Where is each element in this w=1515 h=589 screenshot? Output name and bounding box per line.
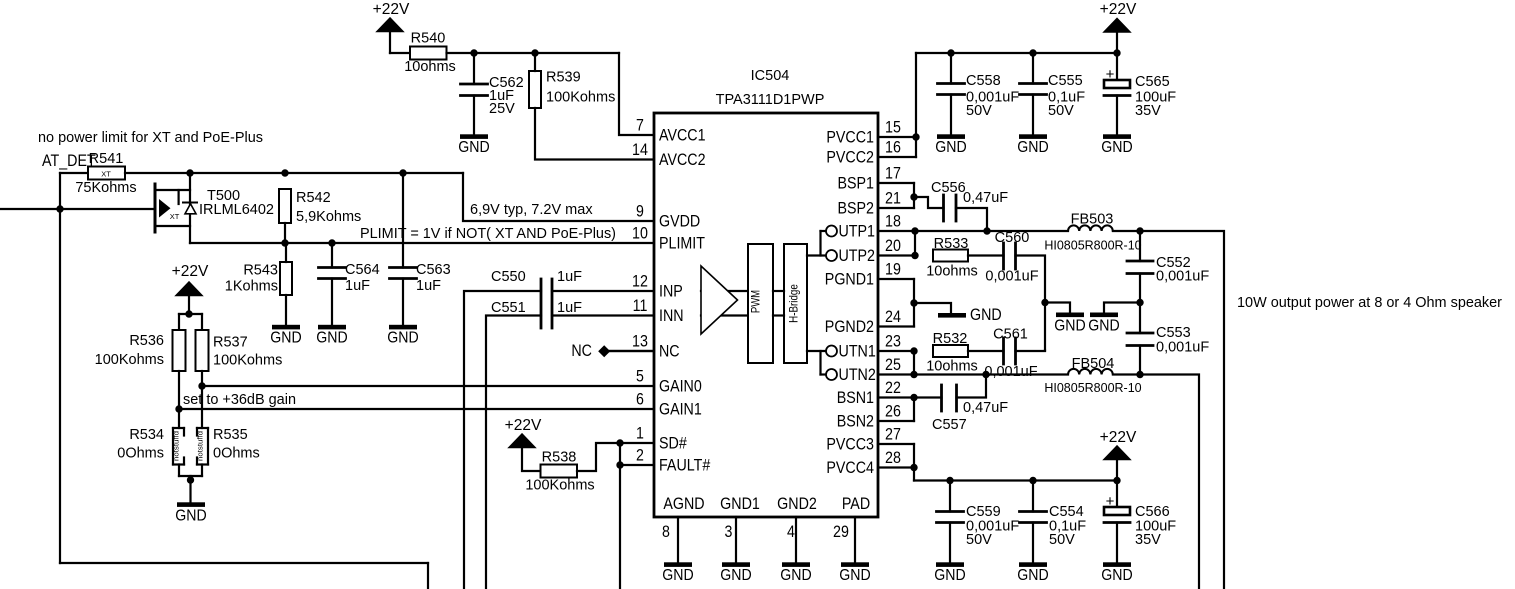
junction dot AC GND node [1041,299,1048,306]
resistor R533 [926,236,978,280]
junction dot C563 top [399,169,406,176]
pin 22 BSN1 [837,379,901,407]
ground GND under C559 [934,562,965,584]
junction dot C557 tap [982,371,989,378]
junction dot SD# [616,439,623,446]
power +22V above R538 [505,417,542,448]
svg-text:1uF: 1uF [557,300,582,316]
svg-text:23: 23 [885,333,901,351]
pin 14 AVCC2 [632,141,705,169]
svg-text:10W output power at 8 or 4 Ohm: 10W output power at 8 or 4 Ohm speaker [1237,294,1502,311]
wire R536 to GAIN1 [178,371,180,428]
resistor R538 [525,450,594,494]
transistor T500 arrow [159,199,171,218]
svg-text:3: 3 [725,523,733,541]
svg-text:1uF: 1uF [416,278,441,294]
svg-text:GND: GND [316,330,347,347]
svg-text:+22V: +22V [373,1,410,18]
wire R532 to C561 [968,350,1004,352]
capacitor C554 [1020,481,1087,563]
svg-text:GND: GND [1088,318,1119,335]
wire FB504 to speaker [1113,375,1199,589]
capacitor C561 [984,327,1037,381]
svg-text:8: 8 [662,523,670,541]
svg-text:C558: C558 [966,73,1001,89]
svg-text:GAIN1: GAIN1 [659,401,702,419]
note GVDD voltage [470,201,593,218]
wire INP from bottom [464,291,541,589]
capacitor C559 [937,481,1020,563]
svg-text:+22V: +22V [1100,1,1137,18]
pin 2 FAULT# [636,447,711,475]
svg-text:75Kohms: 75Kohms [75,180,136,196]
note no power limit [38,129,263,146]
svg-text:15: 15 [885,119,901,137]
IC H-Bridge block [784,244,807,363]
pin 28 PVCC4 [826,449,901,477]
svg-text:C563: C563 [416,262,451,278]
junction dot AT_DET [56,205,63,212]
svg-text:25: 25 [885,356,901,374]
IC internal wires H-Bridge to OUTP [807,226,837,262]
resistor R532 [926,331,978,375]
wire INN from bottom [486,316,541,589]
svg-text:50V: 50V [966,103,992,119]
wire AT_DET riser [59,173,61,209]
wire SD FAULT vertical bus [619,443,621,589]
ground GND pin 3 [720,562,751,584]
junction dot C553 bottom [1136,371,1143,378]
junction dot R539 tap [531,49,538,56]
svg-text:R539: R539 [546,70,581,86]
note output power [1237,294,1502,311]
label T500 [207,188,240,204]
pin 20 OUTP2 [885,237,901,255]
pin 3 GND1 [720,495,760,563]
svg-text:PLIMIT = 1V if NOT( XT AND PoE: PLIMIT = 1V if NOT( XT AND PoE-Plus) [360,225,616,242]
junction dot BSP [910,193,917,200]
pin 11 INN [633,297,684,325]
wire INP to pin 12 [552,290,654,292]
junction dot BSN [910,394,917,401]
wire bottom bus horizontal [60,562,428,564]
pin 7 AVCC1 [636,117,705,145]
svg-text:FB504: FB504 [1072,356,1115,372]
wire PVCC bottom rail [914,479,1117,481]
svg-text:4: 4 [787,523,795,541]
svg-text:FB503: FB503 [1071,212,1114,228]
junction dot OUTN pin25 [910,371,917,378]
transistor T500 body diode [183,203,197,214]
svg-text:PWM: PWM [749,290,763,313]
junction dot GAIN0 [198,382,205,389]
svg-text:35V: 35V [1135,103,1161,119]
svg-text:set to +36dB gain: set to +36dB gain [183,391,296,408]
wire PGND stubs [878,279,914,327]
wire +22V to R540 [390,52,410,54]
wire ladder top [179,314,202,330]
junction dot C559 [946,477,953,484]
svg-text:PVCC2: PVCC2 [826,149,874,167]
wire R540 to AVCC node [447,52,620,54]
svg-text:14: 14 [632,141,648,159]
svg-text:27: 27 [885,426,901,444]
junction dot C558 [947,49,954,56]
wire R541 left [60,172,88,174]
op-amp U IC504 box [654,113,878,517]
svg-text:PGND2: PGND2 [825,318,874,336]
pin 24 PGND2 [825,308,901,336]
power +22V right bottom [1100,429,1137,460]
svg-text:BSN1: BSN1 [837,389,874,407]
svg-text:6: 6 [636,391,644,409]
wire OUTN pins join [878,351,914,375]
junction dot pin28 [910,464,917,471]
svg-text:12: 12 [632,273,648,291]
svg-text:6,9V typ, 7.2V max: 6,9V typ, 7.2V max [470,201,593,218]
transistor T500 body [156,190,190,226]
junction dot pin15 [912,133,919,140]
capacitor C555 [1020,53,1086,134]
svg-text:100Kohms: 100Kohms [546,90,615,106]
ground GND under C563 [387,325,418,347]
svg-text:18: 18 [885,213,901,231]
wire R537 to GAIN0 [201,371,203,428]
resistor R541 [75,151,136,196]
pin 17 BSP1 [838,165,901,193]
junction dot C552 C553 GND tap [1136,299,1143,306]
svg-text:20: 20 [885,237,901,255]
ground GND ladder [175,476,206,525]
pin 1 SD# [636,425,687,453]
capacitor C566 electrolytic [1104,481,1176,563]
wire AT_DET input [0,208,155,210]
wire OUTP pins join [878,231,915,256]
svg-text:IC504: IC504 [751,68,790,84]
wire GVDD to pin 9 [463,173,654,221]
svg-text:C560: C560 [995,230,1030,246]
svg-text:11: 11 [633,297,648,315]
svg-text:1uF: 1uF [345,278,370,294]
svg-text:C557: C557 [932,417,967,433]
svg-text:no power limit for XT and PoE-: no power limit for XT and PoE-Plus [38,129,263,146]
wire R533 to C560 [968,254,1004,256]
wire OUTP1 line [878,230,1068,232]
pin 6 GAIN1 [636,391,702,419]
svg-text:26: 26 [885,403,901,421]
ground GND pin 4 [780,562,811,584]
svg-text:GND: GND [270,330,301,347]
capacitor C562 [461,53,524,134]
wire R539 to pin 14 [535,108,654,160]
svg-text:GND: GND [175,508,206,525]
svg-text:0,47uF: 0,47uF [963,400,1008,416]
resistor R537 [196,330,283,371]
svg-text:PAD: PAD [842,495,870,513]
svg-text:notstuffd: notstuffd [198,431,205,461]
resistor R539 [529,53,615,108]
junction dot R542 top [281,169,288,176]
transistor T500 gate bar [154,184,157,232]
ground GND under C564 [316,325,347,347]
capacitor C560 [985,230,1038,285]
pin 13 NC [632,333,680,361]
svg-text:22: 22 [885,379,901,397]
svg-text:R537: R537 [213,335,248,351]
wire AT_DET vertical bus [59,209,61,563]
svg-text:R538: R538 [542,450,577,466]
wire GAIN0 [202,385,654,387]
wire C561 to GND node [1016,349,1046,352]
svg-text:AVCC1: AVCC1 [659,127,706,145]
label OUTN2 [839,366,876,384]
svg-text:IRLML6402: IRLML6402 [199,202,274,218]
ground GND pin 29 [839,562,870,584]
svg-text:PVCC1: PVCC1 [826,129,874,147]
wire AVCC down to pin 7 [619,53,654,135]
svg-text:24: 24 [885,308,901,326]
svg-text:50V: 50V [966,532,992,548]
junction dot FAULT# [616,461,623,468]
svg-text:R533: R533 [934,236,969,252]
capacitor C565 electrolytic [1104,53,1176,134]
svg-text:HI0805R800R-10: HI0805R800R-10 [1044,239,1141,253]
ferrite bead FB503 [1044,212,1141,253]
resistor R543 [225,243,292,295]
svg-text:9: 9 [636,203,644,221]
svg-text:C551: C551 [491,300,526,316]
svg-text:R536: R536 [129,333,164,349]
ferrite bead FB504 [1044,356,1141,395]
svg-text:NC: NC [571,342,592,360]
pin 19 PGND1 [825,261,901,289]
svg-text:GAIN0: GAIN0 [659,378,702,396]
wire GAIN1 [179,408,654,410]
ground GND under C555 [1017,134,1048,156]
net label AT_DET [42,152,96,170]
junction dot C555 [1029,49,1036,56]
svg-text:R540: R540 [411,31,446,47]
wire C556 to OUTP1 [956,208,987,231]
svg-text:GND2: GND2 [777,495,817,513]
svg-text:21: 21 [885,190,901,208]
junction dot C554 [1029,477,1036,484]
svg-text:C550: C550 [491,269,526,285]
capacitor C553 [1127,303,1209,375]
ground GND under R543 [270,295,301,347]
svg-text:29: 29 [833,523,849,541]
ground GND under C558 [935,134,966,156]
svg-text:0Ohms: 0Ohms [213,446,260,462]
wire FB503 to speaker [1113,231,1224,589]
junction dot GAIN1 [175,405,182,412]
wire PVCC34 stubs [878,444,914,481]
junction dot OUTP pin20 [911,252,918,259]
svg-text:PVCC3: PVCC3 [826,436,874,454]
junction dot C552 top [1136,227,1143,234]
wire bottom bus drop [427,563,429,589]
svg-text:GND: GND [935,139,966,156]
wire PVCC top rail [916,52,1117,54]
capacitor C556 [931,180,1008,221]
svg-text:R541: R541 [89,151,124,167]
junction dot ladder top [185,310,192,317]
svg-text:100Kohms: 100Kohms [95,352,164,368]
svg-text:R532: R532 [933,331,968,347]
svg-text:PLIMIT: PLIMIT [659,235,705,253]
wire BSN stubs [878,398,914,422]
svg-text:PVCC4: PVCC4 [826,459,874,477]
svg-text:2: 2 [636,447,644,465]
junction dot C564 top [328,239,335,246]
label OUTP1 [839,223,876,241]
pin 4 GND2 [777,495,817,563]
transistor T500 drain-source line [189,173,191,243]
pin 9 GVDD [636,203,700,231]
svg-text:NC: NC [659,343,680,361]
svg-text:100Kohms: 100Kohms [525,478,594,494]
svg-text:10ohms: 10ohms [926,359,978,375]
svg-text:28: 28 [885,449,901,467]
pin 27 PVCC3 [826,426,901,454]
power +22V above R536 [172,263,209,314]
svg-text:C565: C565 [1135,74,1170,90]
svg-text:GND: GND [780,567,811,584]
pin 18 OUTP1 [885,213,901,231]
svg-text:SD#: SD# [659,435,688,453]
svg-text:R542: R542 [296,190,331,206]
svg-text:10: 10 [632,225,648,243]
svg-text:AGND: AGND [663,495,704,513]
svg-text:0,001uF: 0,001uF [1156,340,1209,356]
power +22V supply symbol (top left) [373,1,410,53]
capacitor C563 [390,173,451,325]
pin 26 BSN2 [837,403,901,431]
capacitor C564 [319,243,380,325]
pin 16 PVCC2 [826,139,901,167]
junction dot OUTN pin23 [910,347,917,354]
ground GND under C565 [1101,134,1132,156]
junction dot PGND [910,299,917,306]
svg-text:13: 13 [632,333,648,351]
svg-text:HI0805R800R-10: HI0805R800R-10 [1044,381,1141,395]
svg-text:R534: R534 [129,427,164,443]
pin 12 INP [632,273,683,301]
svg-text:1uF: 1uF [557,269,582,285]
svg-text:16: 16 [885,139,901,157]
resistor R536 [95,330,186,371]
ground GND left mid [1045,303,1086,335]
resistor R534 notstuffed [117,427,184,465]
wire PLIMIT [190,242,654,244]
label TPA3111D1PWP [716,92,825,108]
capacitor C552 [1127,231,1209,303]
svg-text:0,47uF: 0,47uF [963,190,1008,206]
ground GND PGND [914,303,1002,324]
wire BSP to C556 [914,197,944,208]
resistor R535 notstuffed [197,427,260,465]
capacitor C557 [932,385,1008,433]
pin 25 OUTN2 [885,356,901,374]
svg-text:1Kohms: 1Kohms [225,279,278,295]
svg-text:50V: 50V [1048,103,1074,119]
svg-text:+22V: +22V [1100,429,1137,446]
svg-text:C561: C561 [993,327,1028,343]
capacitor C550 [491,269,582,328]
svg-text:GND: GND [934,567,965,584]
wire FAULT# to pin 2 [620,464,654,466]
svg-text:7: 7 [636,117,644,135]
junction dot R542 bottom [281,239,288,246]
svg-text:AVCC2: AVCC2 [659,151,706,169]
pin 15 PVCC1 [826,119,901,147]
IC PWM block [748,244,773,363]
svg-text:TPA3111D1PWP: TPA3111D1PWP [716,92,825,108]
svg-text:0,001uF: 0,001uF [985,269,1038,285]
pin 8 AGND [662,495,705,563]
svg-text:H-Bridge: H-Bridge [787,284,801,323]
svg-text:0,001uF: 0,001uF [1156,269,1209,285]
power +22V right top [1100,1,1137,53]
ground GND under C566 [1101,562,1132,584]
svg-text:GND: GND [720,567,751,584]
svg-text:notstuffd: notstuffd [174,431,181,461]
pin 10 PLIMIT [632,225,705,253]
capacitor C558 [938,53,1020,134]
svg-text:1: 1 [636,425,644,443]
pin 29 PAD [833,495,870,563]
svg-text:10ohms: 10ohms [926,264,978,280]
junction dot OUTP pin18 [911,227,918,234]
wire +22V to rail [1116,459,1118,481]
note gain setting [183,391,296,408]
junction dot ladder bottom [187,476,194,483]
wire C557 to OUTN2 [957,375,987,398]
svg-text:C564: C564 [345,262,380,278]
svg-text:50V: 50V [1049,532,1075,548]
pin 5 GAIN0 [636,368,702,396]
svg-text:C555: C555 [1048,73,1083,89]
wire R538 to SD# [577,443,654,471]
junction dot C562 tap [470,49,477,56]
resistor R542 [279,189,361,225]
svg-text:5: 5 [636,368,644,386]
label OUTP2 [839,247,876,265]
svg-text:UTP2: UTP2 [839,247,876,265]
svg-text:UTP1: UTP1 [839,223,876,241]
resistor R540 [404,31,456,76]
svg-text:GND: GND [1017,567,1048,584]
wire R542 to PLIMIT [284,223,286,243]
svg-text:GND: GND [387,330,418,347]
svg-text:GVDD: GVDD [659,213,700,231]
wire INN to pin 11 [552,314,654,316]
svg-text:C556: C556 [931,180,966,196]
svg-text:GND: GND [1017,139,1048,156]
svg-text:INP: INP [659,283,683,301]
wire GVDD rail [125,172,463,174]
IC internal wires PWM to H-Bridge [773,291,784,316]
svg-text:BSP1: BSP1 [838,175,875,193]
capacitor C551 [491,300,582,316]
svg-text:UTN2: UTN2 [839,366,876,384]
ground GND under C554 [1017,562,1048,584]
label OUTN1 [839,343,876,361]
svg-text:5,9Kohms: 5,9Kohms [296,209,361,225]
IC internal wires H-Bridge to OUTN [807,346,837,381]
wire OUTN2 line [914,373,1068,375]
svg-text:BSP2: BSP2 [838,200,875,218]
